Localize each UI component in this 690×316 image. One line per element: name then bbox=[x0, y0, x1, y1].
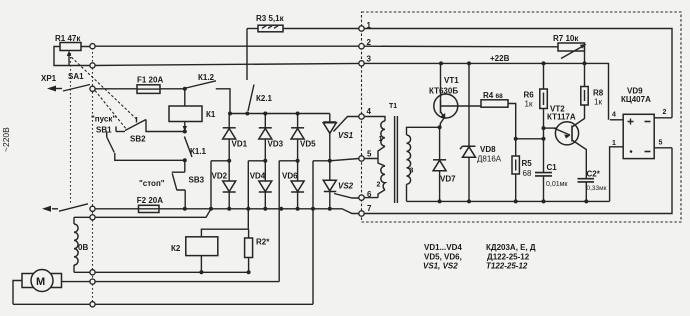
svg-text:VD5: VD5 bbox=[300, 140, 316, 149]
svg-text:VD7: VD7 bbox=[440, 175, 456, 184]
svg-text:R8: R8 bbox=[593, 89, 604, 98]
transformer T1 bbox=[364, 103, 439, 203]
diode VD1 bbox=[223, 114, 248, 161]
UJT emitter wire bbox=[516, 138, 544, 140]
svg-text:4: 4 bbox=[367, 107, 372, 116]
svg-text:1: 1 bbox=[367, 21, 372, 30]
svg-text:SB2: SB2 bbox=[130, 135, 146, 144]
leg3 mid tap (to motor) bbox=[279, 161, 297, 282]
contact K2.1 bbox=[245, 29, 272, 116]
resistor R7 (trimmer) bbox=[553, 34, 587, 87]
svg-text:К1.2: К1.2 bbox=[198, 73, 215, 82]
+22V rail (line3) bbox=[362, 63, 609, 119]
XP1 pin circles bbox=[90, 44, 95, 307]
svg-text:F1 20А: F1 20А bbox=[137, 76, 163, 85]
wire mains line 1 (SA1 to F1 to K1.2) bbox=[95, 88, 185, 90]
svg-text:М: М bbox=[36, 276, 45, 288]
wire line1 inside module to VD9 pin2 bbox=[362, 29, 673, 118]
svg-text:VD1: VD1 bbox=[232, 140, 248, 149]
svg-text:К1.1: К1.1 bbox=[190, 147, 207, 156]
bridge rectifier VD9 bbox=[610, 87, 672, 202]
capacitor C1 bbox=[535, 139, 568, 202]
contact K1.2 bbox=[183, 73, 230, 114]
svg-text:3: 3 bbox=[410, 168, 414, 175]
svg-text:К1: К1 bbox=[206, 110, 216, 119]
svg-text:5: 5 bbox=[367, 150, 372, 159]
svg-text:R1 47к: R1 47к bbox=[55, 34, 81, 43]
svg-text:2: 2 bbox=[367, 38, 372, 47]
bottom return wire bbox=[13, 303, 313, 305]
svg-text:SA1: SA1 bbox=[68, 72, 84, 81]
wire line2 left (R1 right to terminal 2) bbox=[93, 45, 362, 47]
bridge top bus bbox=[229, 113, 330, 115]
svg-text:R2*: R2* bbox=[256, 238, 270, 247]
resistor R6 bbox=[524, 63, 548, 138]
svg-text:0,33мк: 0,33мк bbox=[587, 185, 607, 192]
wire mains line 2 (to F2, bridge bottoms, terminal 7) bbox=[95, 209, 359, 214]
resistor R5 bbox=[512, 156, 532, 201]
leg2 mid tap (to K2/R2) bbox=[248, 161, 265, 229]
leg1 mid tap bbox=[211, 161, 229, 209]
winding bottom wire (to K2, R2) bbox=[74, 271, 249, 273]
svg-text:R5: R5 bbox=[522, 159, 533, 168]
secondary winding 3 bbox=[407, 127, 440, 135]
svg-text:R4 68: R4 68 bbox=[483, 91, 503, 100]
contact K1.1 bbox=[184, 137, 206, 158]
button SB1 "пуск" bbox=[91, 115, 187, 163]
svg-text:"стоп": "стоп" bbox=[139, 179, 165, 188]
thyristor VS2 bbox=[323, 161, 359, 209]
leg4 mid tap (to bottom return) bbox=[313, 161, 330, 304]
resistor R8 bbox=[581, 87, 604, 107]
svg-text:1: 1 bbox=[379, 136, 383, 143]
svg-text:Т122-25-12: Т122-25-12 bbox=[486, 262, 528, 271]
zener VD8 bbox=[460, 63, 502, 201]
svg-text:VD4: VD4 bbox=[250, 172, 266, 181]
field winding 0B top wire bbox=[74, 209, 211, 218]
svg-text:4: 4 bbox=[612, 112, 616, 119]
svg-text:1к: 1к bbox=[525, 100, 533, 109]
svg-text:VD1...VD4: VD1...VD4 bbox=[424, 243, 462, 252]
wire line3 left (R1 left to terminal 3) bbox=[93, 63, 362, 65]
svg-text:~220В: ~220В bbox=[1, 127, 11, 152]
legend text bbox=[423, 243, 536, 271]
inductor 0B bbox=[74, 217, 88, 272]
svg-text:0,01мк: 0,01мк bbox=[546, 181, 568, 188]
svg-text:F2 20А: F2 20А bbox=[137, 196, 163, 205]
svg-text:VD8: VD8 bbox=[480, 145, 496, 154]
wire line2 inside module to R7 bbox=[362, 45, 559, 48]
diode VD7 bbox=[433, 127, 456, 201]
svg-text:КТ117А: КТ117А bbox=[547, 113, 576, 122]
svg-text:VT1: VT1 bbox=[444, 76, 459, 85]
svg-text:7: 7 bbox=[367, 204, 372, 213]
mid rail to terminal 5 bbox=[330, 159, 359, 161]
svg-text:R6: R6 bbox=[524, 91, 535, 100]
svg-text:SB3: SB3 bbox=[189, 176, 205, 185]
diode VD2 bbox=[212, 161, 236, 209]
svg-text:VD2: VD2 bbox=[212, 172, 228, 181]
wire line1 (R3 to terminal 1) bbox=[283, 28, 362, 30]
svg-text:VS2: VS2 bbox=[338, 182, 354, 191]
unijunction transistor VT2 bbox=[547, 105, 586, 179]
button SB3 "стоп" bbox=[139, 160, 205, 209]
svg-text:VD6: VD6 bbox=[282, 172, 298, 181]
svg-text:К2.1: К2.1 bbox=[256, 94, 273, 103]
module ground bus bbox=[407, 200, 610, 202]
svg-text:КД203А, Е, Д: КД203А, Е, Д bbox=[486, 243, 536, 252]
svg-text:2: 2 bbox=[377, 182, 381, 189]
svg-text:R7 10к: R7 10к bbox=[553, 34, 579, 43]
svg-text:VS1: VS1 bbox=[338, 131, 354, 140]
svg-text:Д122-25-12: Д122-25-12 bbox=[487, 252, 530, 261]
mechanical dashed diagonal R1 to SB2 bbox=[68, 54, 138, 120]
svg-text:1: 1 bbox=[612, 140, 616, 147]
capacitor C2* bbox=[578, 170, 607, 202]
mechanical dashed diagonal SA1 to SB2 bbox=[95, 91, 127, 131]
diode VD4 bbox=[250, 161, 272, 209]
terminal 7 wire to VD9 pin5 bbox=[364, 148, 672, 214]
diode VD5 bbox=[291, 114, 316, 161]
diode VD6 bbox=[282, 161, 304, 209]
resistor R4 bbox=[481, 91, 516, 156]
thyristor VS1 bbox=[323, 114, 359, 161]
svg-text:0В: 0В bbox=[78, 243, 88, 252]
button SB2 (upper wire) bbox=[116, 117, 187, 144]
resistor R2* bbox=[245, 229, 271, 272]
fuse F2 bbox=[137, 196, 163, 213]
svg-text:R3 5,1к: R3 5,1к bbox=[256, 14, 285, 23]
svg-text:C1: C1 bbox=[547, 163, 558, 172]
motor M bbox=[13, 270, 279, 305]
potentiometer R1 bbox=[54, 34, 93, 66]
svg-text:"пуск": "пуск" bbox=[91, 115, 116, 124]
svg-text:К2: К2 bbox=[171, 244, 181, 253]
svg-text:VD3: VD3 bbox=[268, 140, 284, 149]
svg-text:2: 2 bbox=[663, 109, 667, 116]
svg-text:Д816А: Д816А bbox=[477, 155, 502, 164]
fuse F1 bbox=[137, 76, 163, 94]
transistor VT1 bbox=[429, 63, 481, 127]
diode VD3 bbox=[259, 114, 284, 161]
svg-text:1к: 1к bbox=[594, 98, 602, 107]
svg-text:VD5, VD6,: VD5, VD6, bbox=[424, 252, 462, 261]
svg-text:6: 6 bbox=[367, 190, 372, 199]
switch SA1 pole 1 with XP1 arrow bbox=[41, 72, 90, 92]
relay coil K1 bbox=[169, 89, 216, 132]
switch SA1 pole 2 with arrow bbox=[42, 204, 88, 212]
svg-text:68: 68 bbox=[523, 169, 532, 178]
svg-text:Т1: Т1 bbox=[389, 103, 397, 110]
svg-text:ХР1: ХР1 bbox=[41, 74, 57, 83]
relay coil K2 with R2* bbox=[171, 229, 248, 272]
svg-text:5: 5 bbox=[659, 140, 663, 147]
svg-text:3: 3 bbox=[367, 55, 372, 64]
connector XP1 dotted line bbox=[92, 44, 94, 304]
mechanical link dotted line from R1 bbox=[70, 53, 72, 204]
svg-text:VS1, VS2: VS1, VS2 bbox=[423, 262, 458, 271]
svg-text:SB1: SB1 bbox=[96, 126, 112, 135]
module dashed enclosure bbox=[362, 12, 682, 222]
svg-text:C2*: C2* bbox=[587, 170, 601, 179]
module terminal pins bbox=[359, 21, 372, 216]
resistor R3 bbox=[247, 14, 285, 32]
junction dots on mains line 2 bbox=[183, 207, 332, 211]
svg-text:+22В: +22В bbox=[490, 54, 510, 63]
svg-text:КЦ407А: КЦ407А bbox=[621, 95, 651, 104]
